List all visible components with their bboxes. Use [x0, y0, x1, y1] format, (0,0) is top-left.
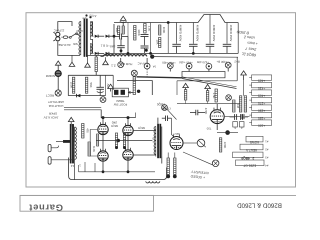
- svg-text:+390 B+: +390 B+: [216, 60, 227, 64]
- svg-text:2 - 6BQ5: 2 - 6BQ5: [241, 156, 254, 160]
- label T2 vertical: [151, 137, 155, 142]
- Garnet logo text: [29, 202, 63, 213]
- wire screen rail: [101, 110, 135, 118]
- resistor R71: [233, 100, 241, 112]
- svg-text:117VAC: 117VAC: [53, 29, 65, 33]
- svg-text:+440 +430: +440 +430: [179, 60, 193, 64]
- svg-text:8.2K: 8.2K: [92, 146, 96, 152]
- power transformer T1 HV secondary winding: [90, 22, 92, 40]
- capacitor C63: [230, 114, 249, 120]
- pilot lamp I2: [55, 90, 61, 96]
- ground symbol preamp 2: [205, 84, 211, 90]
- power transformer T1 heater winding: [90, 44, 92, 56]
- filter capacitor C57 lead: [209, 15, 211, 44]
- label 6BQ5 7189: [157, 102, 171, 111]
- wire plug to bottom rail: [58, 42, 80, 56]
- filter capacitor C56 plates: [189, 44, 198, 53]
- wire plug to top rail: [58, 22, 66, 32]
- dashed lead below TP2: [146, 69, 148, 78]
- wire bus drop x78: [78, 165, 80, 172]
- svg-text:40MFD 450V: 40MFD 450V: [212, 25, 216, 42]
- svg-text:+465 +455: +465 +455: [162, 61, 176, 65]
- svg-text:B260D & L260D: B260D & L260D: [237, 202, 282, 209]
- svg-text:EZ81 GT: EZ81 GT: [243, 164, 256, 168]
- power tube V3b 6BQ5: [123, 123, 133, 135]
- tube chart row 6EU7 A: [240, 144, 268, 152]
- wire TP4 stub: [188, 69, 190, 71]
- svg-text:220K: 220K: [223, 142, 227, 149]
- test point TP3: [167, 63, 173, 69]
- wire pilot chain: [57, 77, 59, 90]
- svg-text:40MFD 450V: 40MFD 450V: [179, 25, 183, 42]
- wire C60 to V2 grid: [172, 118, 175, 137]
- svg-text:1.5K: 1.5K: [212, 93, 216, 99]
- label tremolo footswitch: [114, 99, 128, 107]
- choke CH1 winding: [101, 55, 147, 57]
- junction dot rail b: [127, 52, 130, 55]
- svg-text:+180: +180: [258, 116, 265, 120]
- wire OT secondary to chassis: [74, 160, 76, 180]
- resistor R72: [184, 90, 186, 100]
- rectifier diode D2: [106, 35, 109, 38]
- preamp tube V1 6EU7: [210, 108, 224, 124]
- resistor R70 label: [204, 108, 208, 115]
- wire V3b-V4b link: [127, 136, 129, 149]
- resistor R60: [82, 124, 90, 139]
- handwritten note speed intensity: [190, 169, 209, 179]
- svg-text:10K: 10K: [115, 28, 119, 33]
- cathode resistor R80: [115, 133, 117, 147]
- svg-text:+370: +370: [258, 101, 265, 105]
- resistor R57 bias: [85, 77, 93, 93]
- svg-text:A700: A700: [89, 13, 97, 18]
- wire screen rail drop: [135, 113, 137, 118]
- svg-text:100K: 100K: [70, 82, 74, 89]
- bias test jack J2: [100, 97, 106, 103]
- svg-text:Garnet: Garnet: [29, 202, 63, 213]
- resistor R62 cathode: [167, 158, 169, 175]
- intensity pot VR1: [197, 139, 206, 147]
- power tube V4a 6BQ5: [98, 149, 108, 161]
- capacitor C60: [162, 115, 172, 121]
- handwritten note corner: [236, 30, 258, 57]
- wire chassis rounded run: [69, 158, 167, 180]
- label amp pilot light: [48, 100, 64, 108]
- wire D1 to D2: [99, 35, 105, 37]
- voltage note row labels: [119, 59, 240, 68]
- wire R55 to bias box: [95, 72, 97, 76]
- bias diode D5: [77, 94, 81, 97]
- output transformer T3 secondary winding: [75, 127, 77, 160]
- resistor R75: [239, 96, 241, 112]
- voltage chart row +405: [249, 90, 271, 98]
- wire V1 cathode: [216, 104, 218, 109]
- resistor R76: [244, 96, 246, 112]
- voltage chart row +330: [249, 105, 271, 113]
- wire filter block left edge: [113, 24, 115, 53]
- voltage chart row +160: [249, 120, 271, 128]
- wire HV secondary top to rectifier row 1: [90, 22, 93, 36]
- resistor R52 filter: [144, 24, 152, 34]
- handwritten label 2.1: [111, 63, 116, 67]
- wire bias box right edge: [105, 75, 107, 95]
- filter capacitor C57 plates: [206, 44, 215, 53]
- svg-text:10K: 10K: [156, 40, 160, 45]
- svg-text:2A FUSE: 2A FUSE: [58, 43, 70, 47]
- footswitch box: [112, 88, 128, 97]
- svg-text:6.3V AC: 6.3V AC: [138, 61, 149, 65]
- wire speaker return: [74, 127, 76, 142]
- wire V3a anode: [102, 118, 104, 124]
- wire V1 plate: [216, 124, 218, 130]
- filter capacitor C56 lead: [192, 23, 194, 44]
- wire R72 tail: [185, 100, 187, 104]
- svg-text:6EU7 A: 6EU7 A: [245, 148, 257, 152]
- svg-text:#2: #2: [265, 148, 269, 152]
- model title text B260D &amp; L260D: [237, 202, 282, 209]
- svg-text:B+2: B+2: [234, 59, 240, 63]
- svg-text:470K: 470K: [204, 108, 208, 115]
- junction dot R62: [166, 175, 170, 179]
- wire right column riser: [236, 57, 238, 81]
- wire jack sleeve run: [51, 159, 75, 161]
- tremolo cable pair slant: [182, 77, 237, 89]
- svg-text:AMP PILOT: AMP PILOT: [48, 100, 64, 104]
- filter capacitor C58 value label: [229, 25, 233, 42]
- voltage chart row +430: [249, 82, 271, 90]
- pin label 14: [71, 164, 75, 168]
- svg-text:6BQ5: 6BQ5: [138, 126, 145, 130]
- resistor R53 filter: [159, 25, 167, 35]
- wire tremolo node: [217, 132, 238, 134]
- svg-text:240: 240: [111, 120, 117, 124]
- junction dot bus b: [127, 170, 130, 173]
- label 115V: [76, 29, 83, 33]
- terminal dots PT: [85, 14, 91, 18]
- svg-text:470: 470: [85, 128, 89, 133]
- OT secondary bottom winding: [146, 181, 160, 183]
- label RECT: [46, 94, 54, 98]
- wire preamp lower bus: [177, 103, 240, 105]
- junction dot R63: [173, 175, 177, 179]
- junction dot cathode b: [123, 146, 126, 149]
- resistor R73: [206, 91, 208, 101]
- label bias voltage: [106, 83, 110, 89]
- rectifier diode D4: [106, 52, 109, 55]
- test point TP2: [144, 63, 150, 69]
- wire tap to speaker jack: [56, 140, 63, 142]
- svg-text:TREM: TREM: [116, 99, 125, 103]
- svg-text:+160: +160: [258, 123, 265, 127]
- wire R73 tail: [207, 101, 209, 104]
- tube chart row EZ81 GT: [236, 160, 269, 168]
- power transformer T1 primary winding: [79, 22, 81, 56]
- wire pot to tube: [184, 142, 198, 144]
- svg-text:56K: 56K: [89, 83, 93, 88]
- ground symbol pilot: [55, 61, 61, 70]
- wire V4b plate to OT: [133, 154, 156, 156]
- wire cathode bus: [79, 171, 156, 173]
- rectifier diode D3: [95, 52, 98, 55]
- wire TP1 stub: [120, 58, 122, 62]
- label PT: [81, 13, 96, 20]
- speaker jack J5 sleeve: [48, 144, 51, 151]
- wire tube row cross: [96, 140, 152, 142]
- Garnet logo box: [20, 195, 154, 211]
- cathode capacitor C80: [123, 133, 125, 147]
- svg-text:+330: +330: [258, 108, 265, 112]
- ground symbol below PT a: [69, 55, 75, 66]
- fuse F1: [62, 36, 70, 39]
- wire preamp top bus: [177, 80, 237, 82]
- svg-text:20MFD 450V: 20MFD 450V: [229, 25, 233, 42]
- grid resistor R81: [97, 134, 99, 146]
- label switch: [73, 42, 78, 46]
- test point TP5: [206, 63, 212, 69]
- wire bus drop x95: [94, 163, 96, 172]
- label SPKR: [44, 112, 59, 120]
- svg-text:JACK 6.3V: JACK 6.3V: [44, 115, 59, 119]
- power transformer T1 core: [84, 19, 88, 57]
- svg-text:#1: #1: [265, 140, 269, 144]
- schematic sheet border frame: [26, 13, 296, 187]
- output transformer T3 core: [70, 124, 74, 163]
- wire V3b plate to OT: [133, 130, 156, 132]
- wire V4b cathode: [127, 161, 129, 172]
- phase inverter tube V2 6EU7: [170, 135, 183, 150]
- junction dot rail c: [149, 52, 152, 55]
- test point TP6: [225, 62, 231, 68]
- wire bias box feed right: [112, 75, 114, 90]
- filter capacitor C58 lead: [226, 23, 228, 44]
- capacitor C53: [141, 35, 149, 46]
- label PH-INV: [206, 126, 211, 130]
- svg-text:6EU7: 6EU7: [173, 132, 180, 136]
- wire bias box top: [68, 74, 113, 76]
- wire R62 top: [167, 153, 169, 159]
- wire ext jack slant: [167, 109, 177, 119]
- wire V1 to right: [225, 116, 241, 118]
- junction dot tremolo: [225, 130, 230, 135]
- svg-text:SW: SW: [73, 42, 78, 46]
- svg-text:SPKR: SPKR: [48, 112, 57, 116]
- svg-text:2.1: 2.1: [111, 63, 116, 67]
- ext speaker jack J4: [162, 105, 168, 111]
- power tube V4b 6BQ5: [123, 148, 133, 160]
- output transformer T3 tap bar: [63, 140, 70, 142]
- resistor R63 cathode: [174, 158, 176, 175]
- label V2: [173, 132, 180, 136]
- footswitch arrow: [128, 91, 133, 93]
- tube chart row 6GW8: [246, 136, 268, 144]
- wire T2 top: [157, 118, 159, 124]
- resistor R51 filter: [134, 26, 142, 41]
- wire right column: [243, 80, 245, 96]
- junction dot preamp feed: [137, 90, 140, 93]
- label 117VAC: [53, 29, 65, 33]
- wire slant to jack: [183, 152, 212, 165]
- junction dot rail a: [113, 35, 116, 38]
- junction dot plate a: [102, 116, 105, 119]
- capacitor C50: [122, 26, 124, 34]
- svg-text:O.T.: O.T.: [151, 137, 155, 142]
- wire switch to primary: [79, 35, 81, 37]
- wire jack tip hook: [51, 146, 59, 148]
- power switch SW1: [69, 33, 79, 39]
- label MR-1 rectifiers: [100, 43, 115, 48]
- wire choke bus: [152, 56, 238, 59]
- label fuse 2A: [58, 43, 70, 47]
- pilot lamp I1: [55, 71, 61, 77]
- wire D3 to D4: [99, 52, 105, 54]
- filter capacitor C55 lead: [176, 23, 178, 44]
- wire TP6 stub: [227, 68, 229, 72]
- wire preamp bus drop x177: [176, 81, 178, 95]
- wire junction column x128: [127, 23, 129, 54]
- voltage chart row +465: [249, 75, 271, 83]
- wire R63 top: [174, 153, 176, 159]
- svg-text:RECT: RECT: [46, 94, 54, 98]
- power tube V3a 6BQ5: [98, 122, 108, 134]
- ground symbol main filter: [120, 16, 127, 26]
- junction dot plate b: [127, 116, 130, 119]
- junction dot tube cross: [116, 139, 120, 143]
- wire TP5 stub: [208, 69, 210, 71]
- resistor R56 bias: [70, 77, 75, 93]
- svg-text:750: 750: [206, 126, 211, 130]
- ground symbol OT: [68, 117, 74, 126]
- filter capacitor C58 plates: [223, 44, 232, 53]
- wire top rail to transformer: [66, 22, 72, 26]
- svg-text:P.T.: P.T.: [81, 16, 86, 20]
- resistor R64: [219, 138, 227, 152]
- cathode jack J7: [226, 95, 232, 101]
- label 6BQ5 V3: [111, 124, 118, 128]
- svg-text:+420 405: +420 405: [196, 60, 209, 64]
- wire x150 column: [150, 23, 152, 54]
- test point TP4: [186, 63, 192, 69]
- svg-text:#4: #4: [265, 163, 269, 167]
- tube chart row 2 - 6BQ5: [233, 152, 269, 160]
- heater bus bar: [182, 72, 225, 78]
- filter capacitor C56 value label: [195, 25, 199, 42]
- filter capacitor C57 value label: [212, 25, 216, 42]
- wire heater pair to pilot: [64, 108, 101, 110]
- resistor R55 screen feed: [95, 55, 97, 71]
- svg-text:14: 14: [71, 164, 75, 168]
- svg-text:6GW8: 6GW8: [250, 140, 259, 144]
- ground symbol preamp 1: [183, 83, 189, 89]
- wire x168 column: [167, 23, 169, 54]
- wire V3b anode: [127, 118, 129, 125]
- svg-text:FOOT SW: FOOT SW: [114, 103, 128, 107]
- wire bias box left: [67, 75, 69, 95]
- resistor R54 filter: [156, 38, 161, 48]
- svg-text:LIGHT #44: LIGHT #44: [48, 104, 63, 108]
- svg-text:6BQ5: 6BQ5: [111, 124, 118, 128]
- wire bus drop x85: [84, 162, 86, 172]
- svg-text:5A: 5A: [153, 65, 157, 69]
- wire T2 bottom: [161, 157, 163, 164]
- label 6BQ5 V4: [138, 126, 145, 130]
- ground symbol below choke: [103, 57, 109, 64]
- junction dot bus a: [102, 170, 105, 173]
- choke output junction dot: [150, 55, 154, 59]
- label 240: [111, 120, 117, 124]
- capacitor C52: [117, 39, 125, 54]
- voltage chart row +180: [249, 112, 271, 120]
- driver transformer T2 winding: [154, 127, 156, 157]
- wire preamp feed: [117, 81, 152, 95]
- svg-text:#3: #3: [265, 156, 269, 160]
- voltage chart row +370: [249, 97, 271, 105]
- svg-text:100K: 100K: [162, 27, 166, 34]
- speaker jack J5 tip: [48, 157, 51, 165]
- svg-text:+405: +405: [258, 93, 265, 97]
- wire V3a-V4a link: [102, 135, 104, 150]
- resistor R61: [88, 142, 96, 156]
- wire TP3 stub: [169, 69, 171, 72]
- junction dot rail e: [192, 52, 195, 55]
- coupling capacitor C61: [190, 110, 205, 116]
- footswitch jack J3: [131, 70, 137, 76]
- wire D4 to bottom rail: [109, 52, 114, 54]
- terminal box b: [233, 122, 238, 131]
- wire heater bus continues: [137, 77, 183, 78]
- junction dot rail d: [167, 21, 170, 24]
- svg-text:40MFD 450V: 40MFD 450V: [195, 25, 199, 42]
- ground symbol tremolo: [108, 84, 114, 91]
- rectifier diode D1: [95, 35, 98, 38]
- svg-text:HUM BAL: HUM BAL: [119, 62, 132, 66]
- capacitor C54: [141, 46, 149, 53]
- ground symbol below PT b: [85, 55, 91, 67]
- bias capacitor C57: [96, 75, 104, 95]
- wire grid bus left: [90, 130, 97, 157]
- driver transformer T2 secondary: [161, 127, 163, 157]
- wire filter bottom rail: [87, 53, 238, 55]
- resistor R50 filter: [115, 26, 120, 35]
- label V1 6EU7: [213, 108, 220, 112]
- tremolo jack J6: [212, 160, 219, 167]
- svg-text:NORM: NORM: [45, 74, 55, 78]
- capacitor C62: [242, 114, 250, 119]
- wire filter top rail: [114, 15, 238, 23]
- svg-text:+465: +465: [258, 78, 265, 82]
- wire TP2 stub: [146, 58, 148, 63]
- label NORM: [45, 74, 55, 78]
- wire V4a cathode: [102, 162, 104, 172]
- capacitor C51 plates: [114, 34, 128, 40]
- terminal box d: [239, 122, 244, 131]
- driver transformer T2 core: [157, 124, 161, 158]
- footswitch contact pads: [114, 90, 125, 95]
- filter capacitor C55 plates: [172, 44, 181, 53]
- ground symbol right column: [241, 71, 247, 80]
- resistor R74: [212, 89, 217, 102]
- AC plug P1: [53, 32, 60, 41]
- svg-text:+430: +430: [258, 86, 265, 90]
- wire HV secondary bottom to rectifier row 2: [90, 40, 93, 54]
- footswitch jack lead: [133, 77, 135, 95]
- wire bias box bottom: [68, 95, 105, 97]
- title strip separator line: [20, 194, 296, 196]
- filter capacitor C55 value label: [179, 25, 183, 42]
- wire reservoir right drop: [237, 23, 239, 54]
- test point TP1: [118, 62, 124, 68]
- wire D2 to filter: [109, 35, 114, 37]
- pin label 1: [79, 163, 81, 167]
